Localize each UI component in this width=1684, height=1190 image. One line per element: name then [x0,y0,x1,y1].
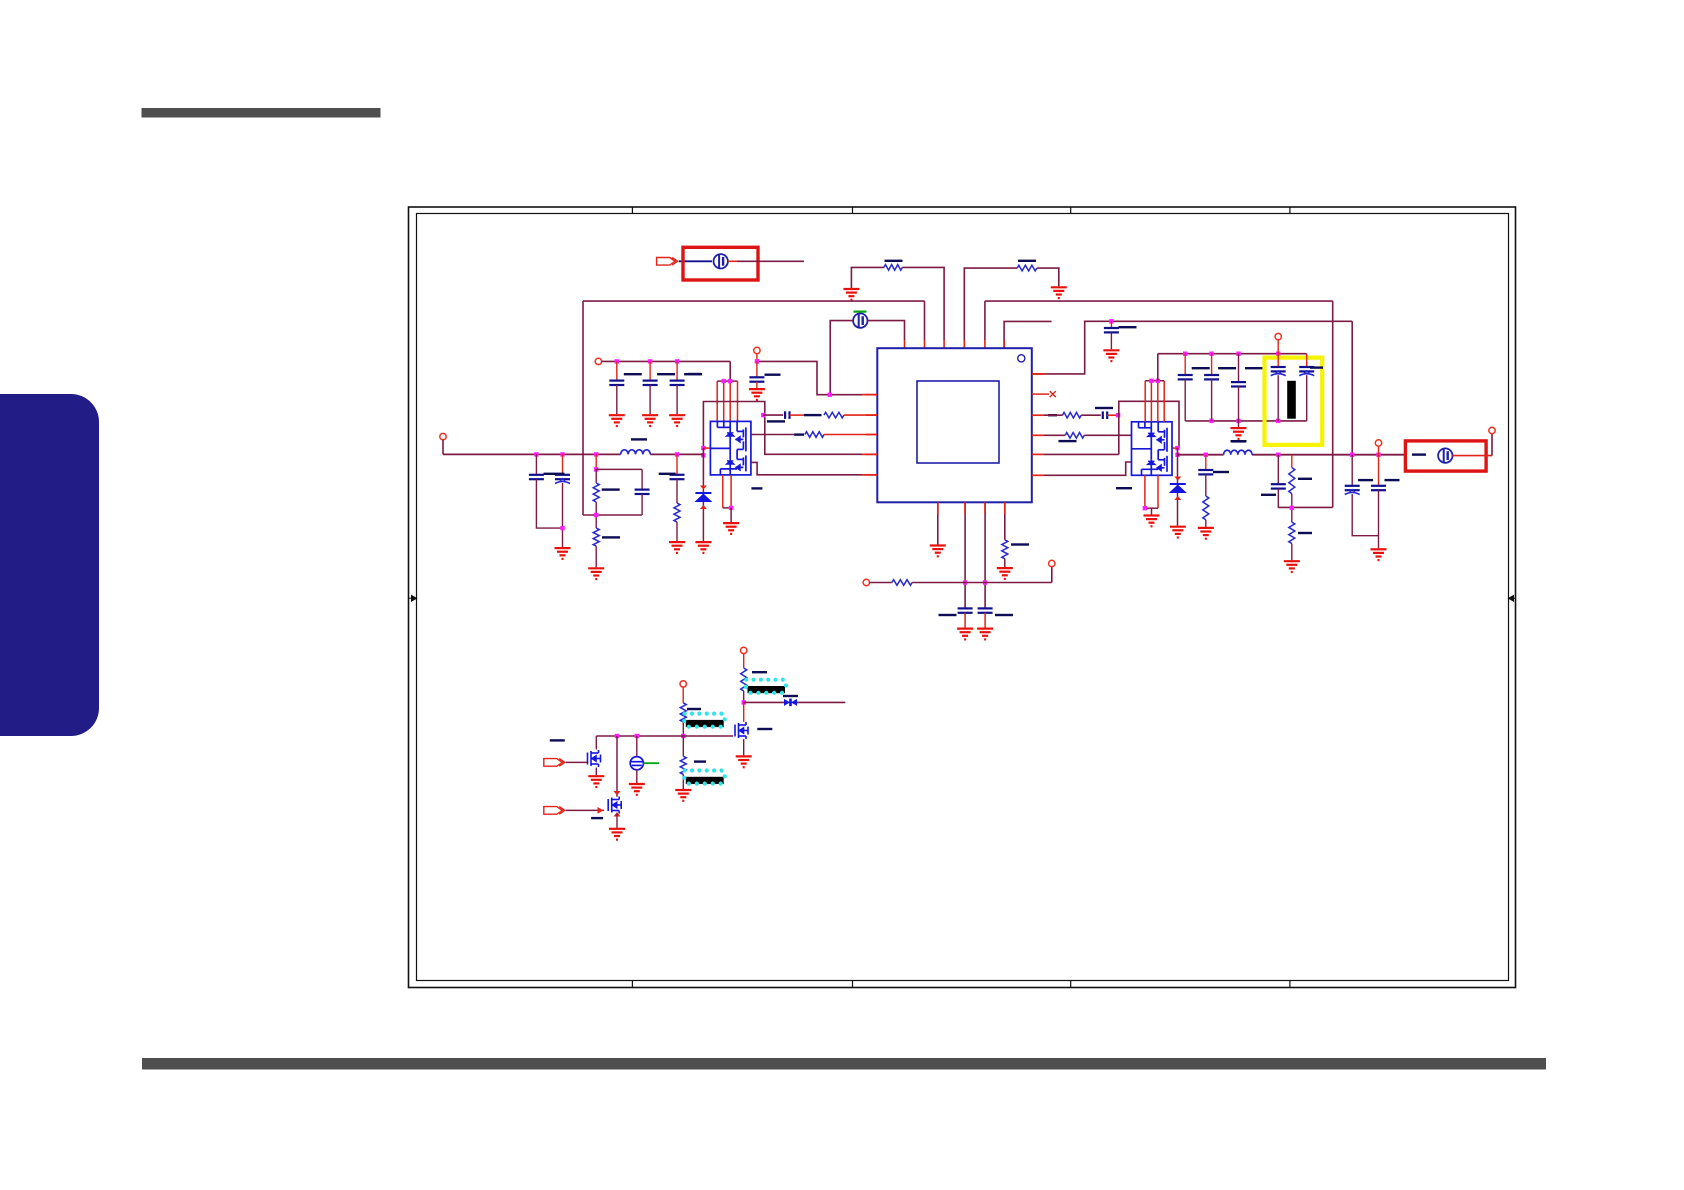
pin stub [866,453,877,455]
ground [1144,516,1160,527]
pin stub [862,453,877,455]
terminal [741,647,747,653]
wire [790,414,805,416]
wire [1185,420,1307,422]
resistor R11 [1065,433,1084,439]
left blue chapter tab [0,394,99,736]
wire [641,469,643,488]
resistor R14 [1289,522,1295,543]
capacitor C18 [1104,328,1119,332]
terminal [1049,560,1055,566]
capacitor C5 [785,411,789,419]
terminal [595,358,601,364]
wire [1150,381,1152,422]
wire [868,321,905,340]
wire [1107,414,1118,416]
value label [1213,471,1229,473]
ground [695,542,711,553]
wire [1110,321,1112,328]
wire [583,514,642,516]
pin stub [1032,373,1044,375]
capacitor C4 [670,381,685,385]
capacitor C14 [1371,486,1386,490]
wire [743,691,745,702]
junction [675,359,679,363]
ground [588,568,604,579]
wire [924,340,926,348]
wire [844,414,877,416]
highlight box (red) [683,247,758,280]
junction [1109,319,1113,323]
pin stub [1032,373,1046,375]
wire [682,687,684,703]
pin stub [1032,474,1044,476]
pin stub [1032,414,1044,416]
wire [964,268,1017,340]
green lead [643,762,659,764]
capacitor C8 [635,490,650,494]
wire [1157,381,1159,422]
value label [1192,367,1210,369]
pin stub [866,394,877,396]
net label [751,487,762,489]
wire [1238,354,1240,382]
pin stub [1032,453,1044,455]
wire feedback loop [703,402,877,455]
junction [755,359,759,363]
wire [824,434,877,436]
wire loop [1119,401,1179,454]
wire [1378,490,1380,548]
wire [1453,455,1493,457]
capacitor C11 [1198,470,1213,474]
pin stub [1003,340,1005,348]
value label [631,438,647,440]
wire [751,462,877,474]
inductor pack FB2 [682,712,727,729]
value label [602,536,620,538]
wire [1205,474,1207,496]
junction [560,452,564,456]
capacitor C2 [609,381,624,385]
junction [701,446,705,450]
resistor R5 [593,483,599,502]
wire [682,736,684,756]
junction [701,453,705,457]
wire [649,385,651,414]
inductor pack FB3 [682,768,727,785]
ground [1198,528,1214,539]
net label [1048,414,1057,416]
capacitor C16 [1204,375,1219,379]
wire [964,613,966,628]
junction [675,452,679,456]
dual mosfet Q1 [710,421,751,475]
resistor R16 [680,703,686,722]
battery B1 [714,254,728,268]
ground [669,542,685,553]
wire [595,469,597,483]
value label [1298,532,1312,534]
wire [1144,475,1146,508]
wire [649,361,651,380]
wire [1158,353,1307,355]
wire [743,702,745,722]
junction [1175,446,1179,450]
value label [939,614,957,616]
wire [756,382,758,388]
value label [995,614,1013,616]
wire [1211,354,1213,375]
wire [1291,544,1293,561]
wire [1004,321,1052,348]
junction [594,452,598,456]
value label [765,374,781,376]
wire [676,479,678,503]
junction [1204,453,1208,457]
wire [1145,507,1158,509]
net label [688,373,701,375]
no-connect x [1050,391,1056,397]
value label [1119,326,1137,328]
value label [767,420,785,422]
wire [984,340,986,348]
wire [702,480,704,542]
junction [828,393,832,397]
resistor R17 [680,756,686,774]
highlight box (red) [1405,441,1486,471]
ground [997,568,1013,579]
junction [615,734,619,738]
frame left zone arrow [409,596,417,602]
wire [1205,520,1207,527]
junction [728,379,732,383]
wire VOUT [1178,454,1224,456]
wire [717,380,737,382]
wire [1004,502,1006,540]
capacitor C7 [555,475,570,484]
wire [729,361,731,381]
wire [1378,455,1380,486]
wire [703,447,710,449]
wire [1205,455,1207,470]
ground [736,756,752,767]
wire [562,454,564,474]
wire [1144,381,1146,422]
ground [555,548,571,559]
value label [1358,479,1373,481]
frame inner border [417,214,1509,981]
capacitor (polarized) [1271,367,1286,376]
wire [984,301,986,340]
net label [591,817,603,819]
resistor R8 [1002,540,1008,559]
ground [1051,287,1067,298]
value label [1218,367,1236,369]
ground [723,523,739,534]
wire [595,768,597,776]
ground [588,776,604,787]
wire [743,739,745,755]
value label [657,373,675,375]
wire [744,701,846,703]
pin stub [964,502,966,514]
net label [1116,487,1132,489]
inductor L2 [1224,450,1253,454]
ground [609,415,625,426]
inductor L1 [621,450,651,455]
wire [1110,332,1112,349]
wire [937,502,939,544]
wire [756,361,758,377]
ground [642,415,658,426]
wire [723,507,731,509]
pin stub [937,502,939,514]
capacitor C13 [1345,486,1360,495]
wire [1332,301,1334,507]
wire [616,814,618,828]
resistor R6 [593,528,599,546]
wire [1277,340,1279,354]
wire [595,454,597,469]
junction [729,506,733,510]
wire [1277,375,1279,421]
junction [635,734,639,738]
ground [1103,350,1119,361]
wire [964,502,966,608]
wire [566,761,587,763]
mosfet Q5 [608,797,621,814]
value label [602,488,620,490]
wire [730,508,732,522]
wire [963,340,965,348]
terminal [1375,440,1381,446]
wire [535,454,537,474]
junction [534,452,538,456]
junction [1209,352,1213,356]
value label [694,760,706,762]
frame zone tick [1070,207,1072,988]
wire [1277,455,1279,485]
wire [1306,354,1308,367]
junction [1276,419,1280,423]
junction [742,700,746,704]
wire VOUT [1252,454,1405,456]
red arrow marker [614,812,621,817]
terminal [1489,427,1495,433]
pin stub [862,474,877,476]
wire [943,340,945,348]
frame right zone arrow [1509,596,1517,602]
terminal [754,347,760,353]
wire [1184,354,1186,375]
net label [1261,494,1276,496]
junction [722,379,726,383]
wire [984,502,986,608]
red arrowhead [598,807,604,814]
wire [616,361,618,380]
wire [751,434,794,436]
wire [737,260,804,262]
wire [763,414,783,416]
resistor R3 [824,412,844,418]
wire rail [1032,321,1352,374]
wire [636,770,638,783]
wire [1044,434,1065,436]
wire [1081,414,1101,416]
junction [1116,413,1120,417]
wire [1084,434,1131,436]
green mark [854,311,867,313]
resistor R2 [1017,265,1037,271]
junction [1236,352,1240,356]
wire [679,260,712,262]
net label [1412,453,1426,455]
ground [675,790,691,801]
wire [676,522,678,541]
value label [757,728,772,730]
junction [761,413,765,417]
wire [1051,567,1053,583]
wire [716,381,718,421]
wire [596,468,642,470]
terminal [1275,333,1281,339]
ground [843,289,859,300]
ground [609,829,625,840]
pin stub [1032,393,1049,395]
wire [743,654,745,668]
controller IC U1 [877,348,1032,502]
ground [1371,549,1387,560]
resistor R12 [1203,496,1209,520]
wire [595,546,597,567]
value label [1298,478,1312,480]
resistor R15 [741,668,747,691]
terminal [440,433,446,439]
wire [1238,387,1240,428]
wire [851,267,884,288]
reference symbol [630,757,643,770]
wire [1151,508,1153,514]
frame zone tick [631,207,633,988]
value label [783,695,798,697]
wire [723,381,725,421]
wire [1163,381,1165,422]
net label [1231,440,1247,442]
capacitor [978,608,993,612]
wire VIN rail [583,300,925,302]
wire [676,454,678,474]
capacitor C9 [670,475,685,479]
resistor R10 [1063,412,1082,418]
wire [1145,380,1164,382]
ground [629,784,645,795]
value label [1011,543,1029,545]
wire [730,475,732,508]
terminal [863,579,869,585]
junction [560,526,564,530]
wire [682,774,684,789]
dual mosfet Q2 [1132,422,1173,476]
net label [804,414,822,416]
capacitor C17 [1231,382,1246,386]
wire [830,321,853,395]
frame zone tick [852,207,854,988]
wire [1278,506,1332,508]
wire [442,440,444,455]
wire [902,267,944,340]
connector J3 [544,807,565,815]
battery B2 [853,313,867,327]
wire [1378,446,1380,455]
wire [1491,434,1493,456]
value label [752,671,767,673]
wire [1277,489,1279,508]
junction [1156,379,1160,383]
wire [757,361,877,394]
value label [544,473,565,475]
wire [566,809,604,811]
junction [681,734,685,738]
value label [1232,440,1246,442]
frame outer border [409,207,1516,988]
wire rail [985,300,1333,302]
wire [536,479,562,528]
capacitor C12 [1271,484,1286,488]
highlight box (yellow) [1265,358,1323,445]
value label [684,373,702,375]
value label [1095,407,1113,409]
junction [1149,379,1153,383]
capacitor C15 [1178,375,1193,379]
wire [616,736,618,797]
resistor R1 [884,265,902,271]
value label [1310,366,1323,368]
wire [1352,494,1378,536]
pin stub [1004,502,1006,514]
wire [912,582,1052,584]
battery B3 [1438,448,1452,462]
wire [1157,354,1159,381]
resistor R13 [1289,468,1295,494]
resistor R7 [674,503,680,522]
wire [682,722,684,736]
ground [957,629,973,640]
diode D2 [1169,477,1187,501]
pin stub [904,340,906,348]
pin stub [1032,434,1044,436]
mosfet Q3 [735,722,748,739]
wire [595,502,597,528]
top gray rule [142,108,381,118]
value label [687,708,701,710]
wire [1351,321,1353,454]
junction [1175,453,1179,457]
wire VIN [650,453,703,455]
pin stub [866,434,877,436]
ground [1170,527,1186,538]
connector J1 [657,258,678,266]
junction [963,580,967,584]
wire [1044,453,1119,455]
junction [1209,419,1213,423]
wire [562,483,564,547]
junction [615,359,619,363]
pin stub [984,502,986,514]
wire [924,301,926,340]
wire [1037,268,1059,286]
wire [595,736,597,749]
